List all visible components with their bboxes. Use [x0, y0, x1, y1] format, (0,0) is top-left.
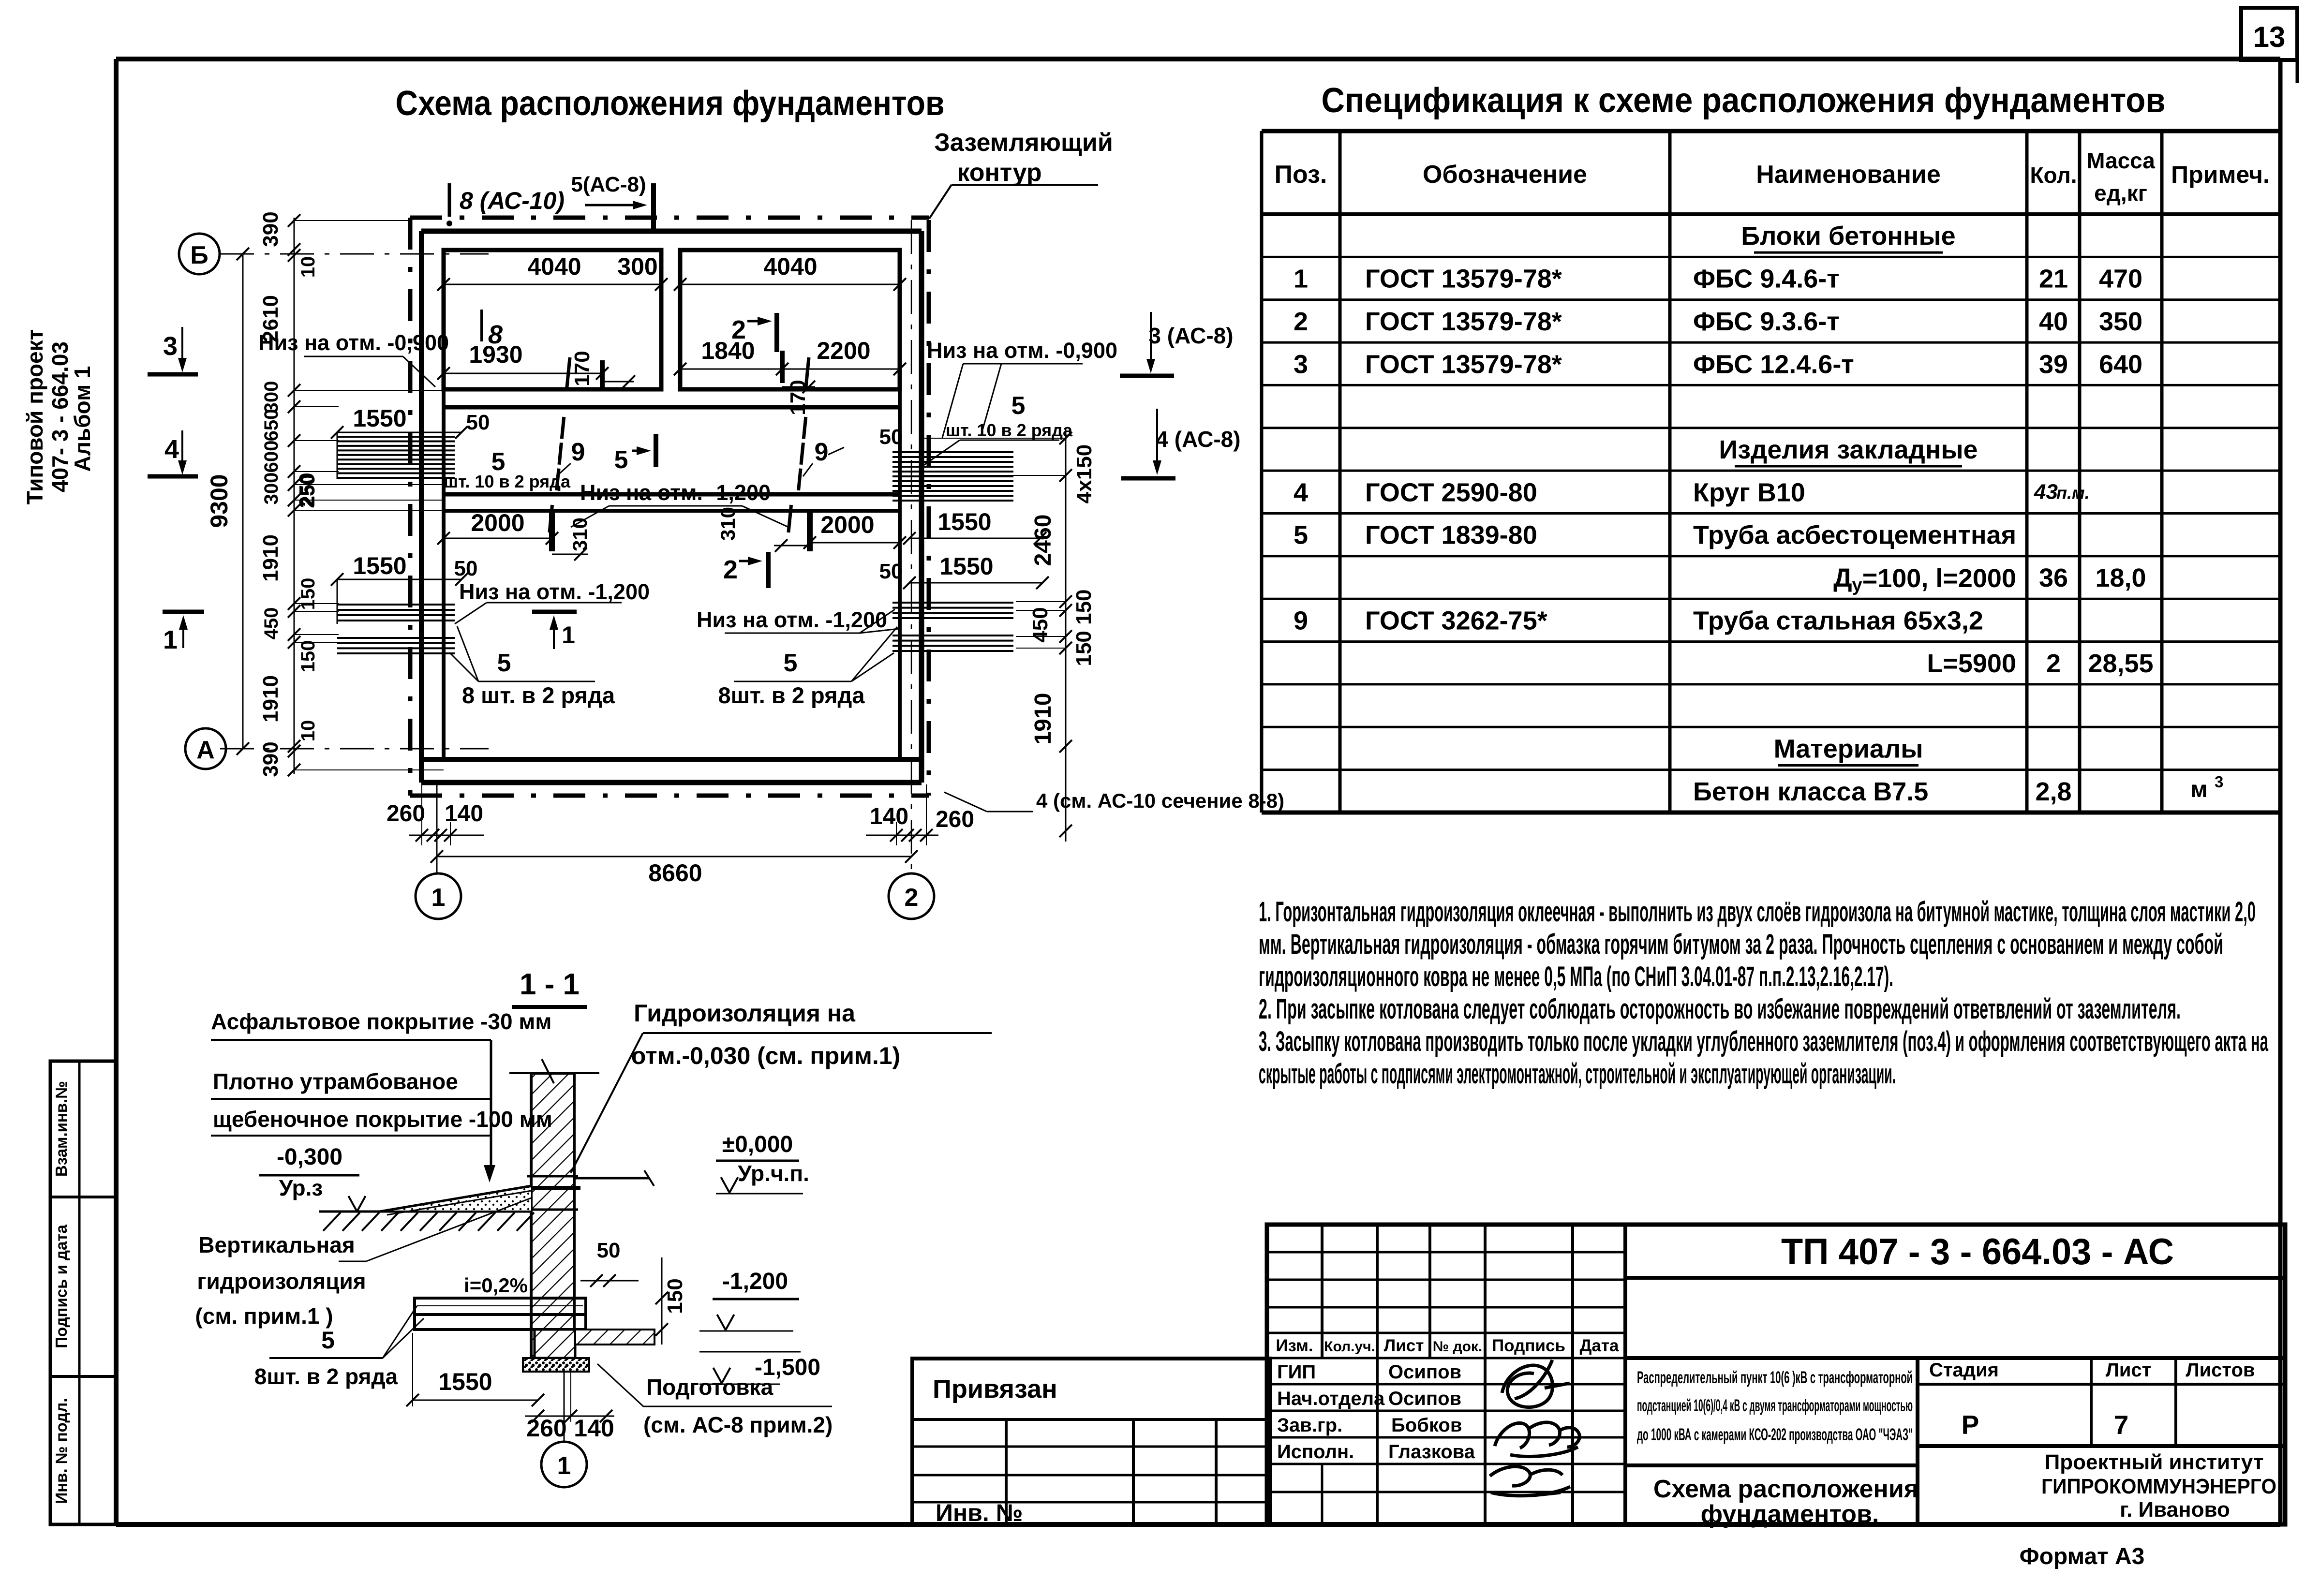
svg-text:250: 250 [295, 473, 319, 508]
svg-text:Взам.инв.№: Взам.инв.№ [52, 1081, 70, 1177]
svg-text:1: 1 [431, 884, 446, 912]
svg-text:Гидроизоляция на: Гидроизоляция на [634, 1000, 856, 1027]
svg-text:2460: 2460 [1030, 515, 1056, 566]
svg-text:260: 260 [936, 807, 974, 832]
svg-text:600: 600 [261, 441, 282, 473]
svg-text:50: 50 [466, 411, 490, 434]
svg-text:Лист: Лист [2106, 1360, 2152, 1381]
svg-text:(см. АС-8 прим.2): (см. АС-8 прим.2) [643, 1412, 833, 1437]
svg-text:щебеночное покрытие -100 мм: щебеночное покрытие -100 мм [213, 1107, 552, 1132]
svg-text:Проектный институт: Проектный институт [2045, 1450, 2264, 1474]
svg-text:мм. Вертикальная гидроизоляция: мм. Вертикальная гидроизоляция - обмазка… [1259, 929, 2223, 960]
svg-text:3: 3 [2215, 773, 2223, 791]
svg-text:Низ на отм. -1,200: Низ на отм. -1,200 [580, 480, 771, 505]
svg-text:28,55: 28,55 [2088, 649, 2153, 678]
svg-text:1840: 1840 [701, 337, 755, 364]
svg-text:Схема расположения фундаментов: Схема расположения фундаментов [396, 84, 945, 123]
svg-text:Привязан: Привязан [933, 1374, 1057, 1404]
svg-text:2000: 2000 [820, 511, 874, 538]
svg-text:21: 21 [2039, 265, 2068, 294]
svg-text:300: 300 [261, 473, 282, 505]
svg-text:Круг В10: Круг В10 [1693, 478, 1805, 507]
svg-text:140: 140 [870, 804, 908, 829]
svg-text:гидроизоляционного ковра не ме: гидроизоляционного ковра не менее 0,5 МП… [1259, 961, 1893, 992]
svg-text:шт. 10 в 2 ряда: шт. 10 в 2 ряда [444, 472, 571, 491]
svg-text:2000: 2000 [471, 509, 524, 536]
svg-text:L=5900: L=5900 [1927, 649, 2016, 678]
svg-text:Спецификация к схеме расположе: Спецификация к схеме расположения фундам… [1322, 81, 2166, 120]
svg-text:260: 260 [526, 1415, 566, 1442]
svg-text:10: 10 [297, 720, 319, 742]
svg-text:скрытые работы с подписями эле: скрытые работы с подписями электромонтаж… [1259, 1058, 1896, 1090]
svg-text:п.м.: п.м. [2056, 483, 2090, 502]
svg-text:450: 450 [261, 607, 282, 640]
svg-text:2: 2 [723, 555, 738, 584]
svg-text:Глазкова: Глазкова [1388, 1441, 1475, 1463]
svg-text:Альбом 1: Альбом 1 [70, 366, 95, 472]
svg-text:390: 390 [259, 741, 283, 777]
svg-text:1: 1 [562, 621, 575, 649]
svg-text:Низ на отм. -0,900: Низ на отм. -0,900 [258, 330, 449, 355]
svg-text:4 (см. АС-10 сечение 8-8): 4 (см. АС-10 сечение 8-8) [1036, 789, 1284, 812]
svg-text:5: 5 [1011, 392, 1026, 420]
svg-text:1550: 1550 [937, 508, 991, 535]
svg-text:3: 3 [163, 332, 178, 361]
svg-text:Плотно утрамбованое: Плотно утрамбованое [213, 1069, 458, 1094]
svg-text:ГОСТ 13579-78*: ГОСТ 13579-78* [1365, 265, 1562, 294]
svg-text:ГОСТ 2590-80: ГОСТ 2590-80 [1365, 478, 1537, 507]
svg-text:4: 4 [1294, 478, 1308, 507]
svg-text:Б: Б [190, 241, 208, 269]
svg-text:2200: 2200 [817, 337, 870, 364]
svg-text:650: 650 [261, 409, 282, 442]
svg-text:до 1000 кВА с камерами КСО-202: до 1000 кВА с камерами КСО-202 производс… [1637, 1425, 1913, 1444]
svg-text:9300: 9300 [206, 474, 233, 528]
svg-text:8660: 8660 [648, 859, 702, 887]
svg-text:4х150: 4х150 [1072, 444, 1096, 503]
svg-text:8шт. в 2 ряда: 8шт. в 2 ряда [254, 1364, 398, 1389]
svg-text:ГОСТ 13579-78*: ГОСТ 13579-78* [1365, 307, 1562, 336]
svg-text:Подпись и дата: Подпись и дата [52, 1225, 70, 1348]
svg-text:Лист: Лист [1384, 1336, 1424, 1355]
svg-text:контур: контур [957, 159, 1041, 187]
svg-text:150: 150 [663, 1278, 687, 1314]
svg-text:4 (АС-8): 4 (АС-8) [1156, 427, 1240, 452]
svg-text:№ док.: № док. [1433, 1339, 1483, 1355]
svg-text:ФБС 9.4.6-т: ФБС 9.4.6-т [1693, 265, 1840, 294]
svg-text:8шт. в 2 ряда: 8шт. в 2 ряда [718, 682, 865, 708]
svg-text:470: 470 [2099, 265, 2142, 294]
svg-text:1550: 1550 [353, 405, 406, 432]
svg-text:1550: 1550 [438, 1368, 492, 1395]
svg-text:4: 4 [164, 435, 179, 464]
svg-text:Подготовка: Подготовка [646, 1374, 773, 1400]
svg-text:50: 50 [454, 557, 478, 580]
svg-text:1910: 1910 [259, 534, 283, 582]
svg-text:170: 170 [786, 380, 810, 415]
svg-text:13: 13 [2253, 21, 2286, 53]
svg-text:300: 300 [261, 381, 282, 414]
svg-text:50: 50 [597, 1239, 621, 1262]
svg-text:5(АС-8): 5(АС-8) [571, 173, 646, 196]
svg-text:1: 1 [163, 625, 178, 654]
svg-text:18,0: 18,0 [2095, 563, 2146, 592]
svg-text:Кол.: Кол. [2030, 163, 2077, 188]
svg-text:43: 43 [2034, 480, 2058, 503]
svg-text:±0,000: ±0,000 [722, 1132, 793, 1157]
svg-text:Асфальтовое покрытие -30 мм: Асфальтовое покрытие -30 мм [211, 1009, 551, 1034]
svg-text:140: 140 [574, 1415, 614, 1442]
svg-text:Низ на отм. -1,200: Низ на отм. -1,200 [459, 579, 650, 604]
svg-text:гидроизоляция: гидроизоляция [197, 1269, 366, 1294]
svg-text:Стадия: Стадия [1929, 1360, 1999, 1381]
svg-text:ГИПРОКОММУНЭНЕРГО: ГИПРОКОММУНЭНЕРГО [2041, 1475, 2276, 1498]
svg-text:Формат А3: Формат А3 [2020, 1544, 2145, 1569]
svg-text:Заземляющий: Заземляющий [934, 129, 1113, 157]
svg-text:Дата: Дата [1579, 1336, 1619, 1355]
svg-text:170: 170 [570, 351, 594, 386]
svg-text:310: 310 [568, 517, 591, 551]
svg-text:Масса: Масса [2086, 148, 2155, 173]
svg-text:Бобков: Бобков [1391, 1415, 1462, 1436]
svg-text:Вертикальная: Вертикальная [198, 1232, 355, 1257]
svg-text:ГОСТ 13579-78*: ГОСТ 13579-78* [1365, 350, 1562, 379]
svg-text:(см. прим.1 ): (см. прим.1 ) [195, 1303, 333, 1329]
svg-text:1550: 1550 [353, 552, 406, 579]
svg-text:5: 5 [497, 649, 511, 677]
svg-text:ФБС 9.3.6-т: ФБС 9.3.6-т [1693, 307, 1840, 336]
svg-text:310: 310 [716, 507, 739, 541]
svg-text:ГОСТ 1839-80: ГОСТ 1839-80 [1365, 521, 1537, 550]
svg-text:подстанцией 10(6)/0,4 кВ с дву: подстанцией 10(6)/0,4 кВ с двумя трансфо… [1637, 1396, 1913, 1415]
svg-text:3. Засыпку котлована производи: 3. Засыпку котлована производить только … [1259, 1026, 2268, 1057]
svg-text:-1,200: -1,200 [722, 1269, 788, 1294]
svg-text:Нач.отдела: Нач.отдела [1277, 1388, 1385, 1409]
svg-text:1550: 1550 [939, 553, 993, 580]
svg-text:1910: 1910 [259, 675, 283, 723]
svg-text:150: 150 [297, 640, 319, 673]
svg-text:3 (АС-8): 3 (АС-8) [1148, 323, 1233, 348]
svg-text:1 - 1: 1 - 1 [520, 968, 580, 1001]
svg-text:ТП 407 - 3 - 664.03 - АС: ТП 407 - 3 - 664.03 - АС [1781, 1231, 2174, 1272]
svg-text:50: 50 [879, 560, 903, 583]
svg-text:1910: 1910 [1030, 693, 1056, 745]
svg-text:150: 150 [297, 578, 319, 610]
svg-text:Р: Р [1962, 1410, 1979, 1440]
svg-text:Поз.: Поз. [1275, 161, 1327, 189]
svg-text:50: 50 [879, 425, 903, 449]
svg-text:i=0,2%: i=0,2% [464, 1274, 528, 1297]
svg-text:Изм.: Изм. [1276, 1336, 1313, 1355]
svg-text:Исполн.: Исполн. [1277, 1441, 1354, 1463]
svg-text:10: 10 [297, 256, 319, 278]
svg-text:Наименование: Наименование [1756, 161, 1941, 189]
svg-text:9: 9 [1294, 606, 1308, 635]
svg-text:Типовой проект: Типовой проект [22, 329, 47, 504]
svg-text:Зав.гр.: Зав.гр. [1277, 1415, 1342, 1436]
svg-text:фундаментов.: фундаментов. [1701, 1500, 1879, 1528]
svg-text:2,8: 2,8 [2035, 777, 2071, 806]
svg-text:м: м [2190, 777, 2208, 802]
svg-text:2: 2 [731, 315, 746, 344]
svg-text:390: 390 [259, 211, 283, 247]
svg-text:2: 2 [1294, 307, 1308, 336]
svg-text:2. При засыпке котлована следу: 2. При засыпке котлована следует соблюда… [1259, 993, 2181, 1025]
svg-text:Блоки бетонные: Блоки бетонные [1741, 222, 1955, 251]
svg-text:350: 350 [2099, 307, 2142, 336]
svg-text:ГОСТ 3262-75*: ГОСТ 3262-75* [1365, 606, 1547, 635]
svg-text:36: 36 [2039, 563, 2068, 592]
svg-text:шт. 10 в 2 ряда: шт. 10 в 2 ряда [946, 420, 1073, 440]
svg-text:4040: 4040 [763, 253, 817, 280]
svg-text:1: 1 [557, 1452, 571, 1480]
svg-text:Труба стальная 65х3,2: Труба стальная 65х3,2 [1693, 606, 1983, 635]
svg-text:1. Горизонтальная гидроизоляци: 1. Горизонтальная гидроизоляция оклеечна… [1259, 896, 2256, 928]
svg-text:300: 300 [617, 253, 657, 280]
svg-text:1: 1 [1294, 265, 1308, 294]
svg-text:Бетон класса В7.5: Бетон класса В7.5 [1693, 777, 1928, 806]
svg-text:Примеч.: Примеч. [2171, 161, 2270, 188]
svg-text:8 (АС-10): 8 (АС-10) [460, 187, 565, 214]
svg-text:ГИП: ГИП [1277, 1361, 1316, 1383]
svg-text:Материалы: Материалы [1774, 734, 1923, 763]
svg-text:Кол.уч.: Кол.уч. [1324, 1339, 1375, 1355]
svg-text:39: 39 [2039, 350, 2068, 379]
svg-text:-0,300: -0,300 [277, 1144, 342, 1170]
svg-text:260: 260 [387, 801, 425, 827]
svg-text:Осипов: Осипов [1388, 1361, 1461, 1383]
svg-text:Труба асбестоцементная: Труба асбестоцементная [1693, 521, 2016, 550]
svg-text:Ду=100, l=2000: Ду=100, l=2000 [1833, 563, 2016, 595]
svg-text:8 шт. в 2 ряда: 8 шт. в 2 ряда [462, 682, 615, 708]
svg-text:Изделия закладные: Изделия закладные [1719, 435, 1978, 464]
svg-text:2: 2 [905, 884, 919, 912]
svg-text:ФБС 12.4.6-т: ФБС 12.4.6-т [1693, 350, 1854, 379]
svg-text:1930: 1930 [469, 341, 522, 368]
svg-text:40: 40 [2039, 307, 2068, 336]
svg-text:А: А [196, 736, 215, 764]
svg-text:150 150: 150 150 [1072, 589, 1096, 666]
svg-text:7: 7 [2114, 1410, 2129, 1440]
svg-text:9: 9 [571, 438, 585, 466]
svg-text:Обозначение: Обозначение [1423, 161, 1587, 189]
svg-text:Низ на отм. -1,200: Низ на отм. -1,200 [697, 607, 887, 632]
svg-text:4040: 4040 [527, 253, 581, 280]
svg-text:Осипов: Осипов [1388, 1388, 1461, 1409]
svg-text:г. Иваново: г. Иваново [2120, 1498, 2230, 1522]
svg-text:9: 9 [815, 438, 829, 466]
svg-text:Схема расположения: Схема расположения [1653, 1475, 1918, 1503]
svg-text:407- 3 - 664.03: 407- 3 - 664.03 [47, 341, 73, 492]
svg-text:Подпись: Подпись [1492, 1336, 1565, 1355]
svg-text:5: 5 [614, 446, 628, 474]
svg-text:Листов: Листов [2186, 1360, 2255, 1381]
svg-text:ед,кг: ед,кг [2094, 180, 2147, 206]
svg-text:5: 5 [784, 649, 798, 677]
svg-text:Инв. № подл.: Инв. № подл. [52, 1398, 70, 1504]
svg-text:450: 450 [1028, 607, 1052, 642]
svg-text:отм.-0,030 (см. прим.1): отм.-0,030 (см. прим.1) [631, 1042, 900, 1069]
svg-text:3: 3 [1294, 350, 1308, 379]
svg-text:2: 2 [2046, 649, 2061, 678]
svg-text:640: 640 [2099, 350, 2142, 379]
svg-text:5: 5 [1294, 521, 1308, 550]
svg-text:Ур.з: Ур.з [279, 1175, 323, 1200]
svg-text:Инв. №: Инв. № [936, 1499, 1023, 1526]
svg-text:Ур.ч.п.: Ур.ч.п. [738, 1161, 809, 1186]
svg-text:Распределительный пункт 10(6 ): Распределительный пункт 10(6 )кВ с транс… [1637, 1368, 1913, 1387]
svg-text:5: 5 [321, 1327, 335, 1354]
svg-text:Низ на отм. -0,900: Низ на отм. -0,900 [927, 338, 1117, 363]
